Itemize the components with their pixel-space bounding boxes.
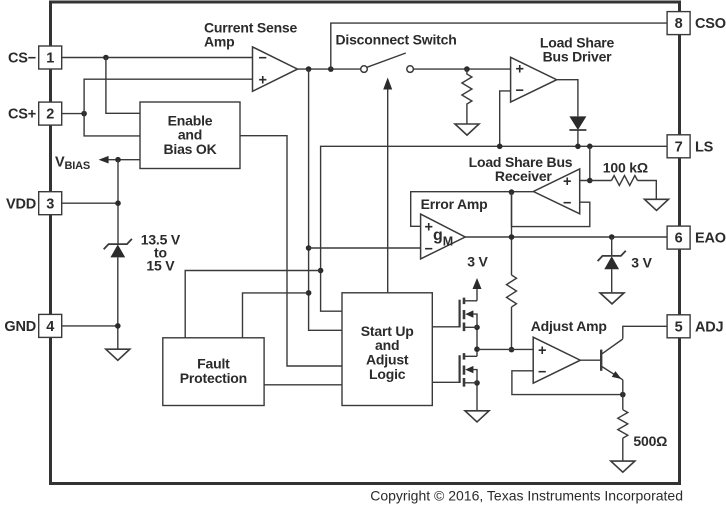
wire sense line down to start up logic: [309, 69, 342, 330]
disconnect switch contact right: [407, 66, 414, 73]
op-amp load share bus driver: [511, 57, 557, 102]
wire fault protection to start up logic: [264, 384, 342, 386]
wire emitter down to 500 ohm resistor: [622, 380, 624, 410]
node junction top mosfet source: [474, 325, 480, 331]
ground below 500 ohm: [611, 461, 635, 472]
svg-text:−: −: [563, 195, 571, 211]
wire zener anode to GND line: [117, 257, 119, 349]
resistor pulldown at driver input: [462, 69, 472, 124]
wire receiver unity feedback: [512, 192, 590, 227]
resistor EAO to adjust node: [507, 275, 517, 307]
wire amp output to disconnect switch: [298, 68, 361, 70]
svg-text:Error Amp: Error Amp: [421, 196, 488, 212]
node junction on CS- wire: [103, 55, 109, 61]
wire mosfet mid node: [476, 327, 478, 356]
wire start up logic gate drive top: [432, 326, 459, 328]
wire CS- branch down into Enable block: [106, 58, 140, 114]
wire adjust node to adjust amp non-inverting input: [477, 348, 533, 350]
node junction adjust drive node: [474, 346, 480, 352]
pin 6 EAO: [667, 226, 690, 249]
node junction receiver plus input: [587, 178, 593, 184]
svg-text:Disconnect Switch: Disconnect Switch: [336, 31, 457, 47]
wire bottom mosfet source to ground: [476, 383, 478, 411]
svg-text:100 kΩ: 100 kΩ: [603, 160, 648, 176]
ground below bottom mosfet: [465, 411, 489, 422]
wire VDD pin3 stub: [62, 202, 118, 204]
transistor Q1 npn: [601, 339, 623, 380]
resistor 500 ohm: [618, 410, 628, 438]
svg-text:8: 8: [675, 16, 683, 32]
wire CS- pin1 to current sense amp inverting input: [62, 57, 253, 59]
op-amp error amp gM: [421, 214, 466, 259]
node junction GND: [115, 323, 121, 329]
wire CS+ up to amp non-inverting input: [84, 79, 252, 113]
wire error amp output to pin 6 EAO: [465, 236, 667, 238]
pin 4 GND: [39, 314, 62, 337]
node junction sense to error amp: [306, 245, 312, 251]
svg-text:VDD: VDD: [6, 196, 36, 212]
enable and bias ok block: [140, 102, 240, 169]
pin 7 LS: [667, 135, 690, 158]
diode at driver output: [569, 116, 586, 130]
wire 3V supply to top mosfet drain: [476, 288, 478, 301]
svg-text:CS+: CS+: [8, 107, 36, 123]
wire LS down to receiver non-inverting input and 100k: [580, 146, 590, 180]
svg-text:−: −: [259, 50, 267, 66]
ground below 3V zener: [600, 293, 624, 304]
svg-text:+: +: [425, 220, 433, 236]
svg-text:−: −: [425, 241, 433, 257]
wire 100k resistor to ground: [638, 181, 657, 200]
pin 2 CS+: [39, 102, 62, 125]
node junction pulldown resistor tap: [464, 66, 470, 72]
svg-text:6: 6: [675, 231, 683, 247]
node junction EAO at zener: [609, 234, 615, 240]
mosfet M1 top: [460, 298, 477, 332]
node junction emitter feedback: [620, 392, 626, 398]
svg-text:1: 1: [46, 51, 54, 67]
wire compensation resistor to adjust node: [511, 307, 513, 350]
node junction receiver tap on LS: [587, 144, 593, 150]
node junction adjust node at resistor: [509, 347, 515, 353]
ground below pin4 node: [106, 349, 130, 360]
wire CSO net up and right to pin 8: [331, 23, 667, 69]
svg-text:LS: LS: [695, 139, 714, 155]
pin 3 VDD: [39, 192, 62, 215]
svg-text:7: 7: [675, 139, 683, 155]
pin 8 CSO: [667, 12, 690, 35]
wire receiver output to error amp non-inverting input: [411, 192, 534, 227]
wire fault protection to LS branch: [185, 271, 320, 338]
ground below pulldown resistor: [455, 124, 479, 135]
node junction LS branch to fault line: [318, 268, 324, 274]
wire collector up to pin 5 ADJ: [623, 326, 667, 339]
wire VBIAS line from enable block: [104, 159, 140, 161]
wire start up logic gate drive bottom: [432, 381, 459, 383]
wire switch to driver non-inverting input: [413, 68, 510, 70]
svg-text:Protection: Protection: [180, 370, 247, 386]
3V supply arrowhead: [473, 278, 482, 289]
wire disconnect switch control from start up logic: [387, 88, 389, 293]
node junction driver feedback on LS: [497, 144, 503, 150]
svg-text:GND: GND: [4, 319, 36, 335]
wire VBIAS down to VDD and zener: [117, 160, 119, 245]
svg-text:+: +: [516, 62, 524, 78]
node junction sense to fault line: [306, 290, 312, 296]
wire driver output to diode: [557, 80, 578, 117]
svg-text:5: 5: [675, 319, 683, 335]
op-amp load share bus receiver: [533, 169, 579, 214]
svg-text:3 V: 3 V: [631, 254, 652, 270]
op-amp current sense amp: [253, 47, 298, 91]
svg-text:+: +: [259, 72, 267, 88]
svg-text:Bias OK: Bias OK: [163, 141, 216, 157]
ground below 100k: [645, 199, 669, 210]
svg-text:EAO: EAO: [695, 231, 726, 247]
node junction receiver output: [509, 189, 515, 195]
zener diode 3V at EAO: [604, 256, 619, 269]
svg-text:Receiver: Receiver: [495, 168, 553, 184]
node junction VDD: [115, 200, 121, 206]
pin 1 CS-: [39, 46, 62, 69]
wire EAO zener anode to ground: [611, 269, 613, 293]
svg-text:−: −: [516, 83, 524, 99]
svg-text:ADJ: ADJ: [695, 319, 724, 335]
svg-text:Copyright © 2016, Texas Instru: Copyright © 2016, Texas Instruments Inco…: [370, 488, 683, 504]
node junction bottom mosfet source: [474, 380, 480, 386]
node junction CSO to pin8: [328, 66, 334, 72]
wire 500 ohm resistor to ground: [622, 438, 624, 461]
node junction CSO sense: [306, 66, 312, 72]
disconnect switch contact left: [361, 66, 368, 73]
svg-text:500Ω: 500Ω: [633, 433, 667, 449]
svg-text:+: +: [538, 343, 546, 359]
node junction on CS+ wire: [81, 111, 87, 117]
zener diode 13.5V-15V: [110, 245, 125, 258]
op-amp adjust amp: [533, 337, 580, 383]
switch control arrowhead: [383, 78, 392, 90]
svg-text:+: +: [563, 174, 571, 190]
svg-text:CS−: CS−: [8, 51, 36, 67]
wire enable block output to start up logic: [240, 136, 342, 366]
svg-text:3: 3: [46, 196, 54, 212]
pin 5 ADJ: [667, 315, 690, 338]
wire adjust amp output to transistor base: [580, 359, 600, 361]
svg-text:3 V: 3 V: [467, 254, 488, 270]
wire GND pin4 stub: [62, 325, 118, 327]
svg-text:2: 2: [46, 107, 54, 123]
svg-text:4: 4: [46, 319, 54, 335]
svg-text:Adjust Amp: Adjust Amp: [531, 318, 607, 334]
svg-text:Bus Driver: Bus Driver: [543, 48, 613, 64]
wire LS bus pin7 across to start up logic: [321, 146, 667, 311]
mosfet M2 bottom: [460, 353, 477, 387]
svg-text:Amp: Amp: [204, 33, 235, 49]
wire receiver plus to 100k resistor: [590, 180, 612, 182]
node junction VBIAS: [115, 157, 121, 163]
wire fault protection to sense line: [243, 293, 309, 338]
start up and adjust logic block: [342, 293, 432, 406]
wire EAO zener branch: [611, 237, 613, 256]
VBIAS arrowhead: [99, 156, 109, 164]
svg-text:−: −: [538, 365, 546, 381]
wire sense to error amp inverting input: [309, 247, 421, 249]
svg-text:CSO: CSO: [695, 16, 726, 32]
resistor 100k: [612, 176, 638, 186]
disconnect switch blade: [367, 53, 406, 67]
wire diode cathode to LS bus: [577, 130, 579, 146]
fault protection block: [163, 338, 264, 406]
wire driver inverting feedback to LS bus: [500, 91, 511, 146]
node junction EAO at resistor: [509, 234, 515, 240]
node junction diode on LS: [575, 144, 581, 150]
wire adjust amp feedback to emitter: [512, 371, 623, 395]
wire CS+ pin2 stub: [62, 113, 84, 115]
wire EAO node down through compensation resistor: [511, 192, 513, 275]
wire CS+ down into Enable block: [84, 114, 140, 136]
svg-text:15 V: 15 V: [146, 258, 175, 274]
svg-text:Logic: Logic: [369, 366, 406, 382]
